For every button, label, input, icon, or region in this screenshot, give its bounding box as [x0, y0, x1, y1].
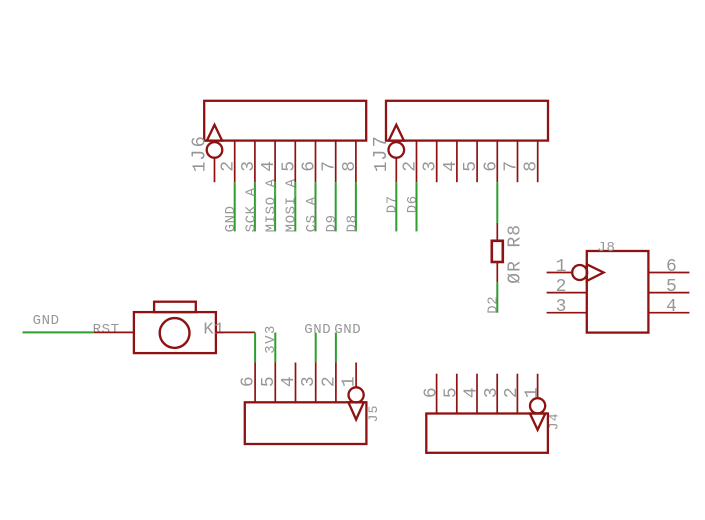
net MISO_A wire [274, 182, 276, 231]
svg-text:6: 6 [666, 257, 677, 277]
J7 pin 1 wire [395, 157, 397, 182]
J4 pin 5 wire [456, 374, 458, 414]
svg-text:2: 2 [502, 387, 522, 398]
svg-text:5: 5 [461, 161, 481, 172]
svg-text:D2: D2 [485, 296, 501, 314]
svg-text:5: 5 [279, 161, 299, 172]
svg-text:J4: J4 [547, 412, 562, 430]
connector J5 body [245, 402, 367, 444]
J6 pin 1 marker triangle [207, 125, 222, 141]
svg-text:2: 2 [556, 277, 567, 297]
J8 pin 4 wire [648, 312, 689, 314]
svg-text:1: 1 [372, 161, 392, 172]
R8 bottom pin wire [496, 262, 498, 282]
J7 pin 1 marker circle [389, 142, 405, 158]
net D8 wire [355, 182, 357, 231]
svg-text:ØR: ØR [505, 260, 525, 284]
J5 pin 1 wire [355, 363, 357, 387]
J7 pin 2 wire [416, 141, 418, 183]
connector J6 body [204, 101, 366, 141]
svg-text:7: 7 [320, 161, 340, 172]
J5 pin 1 marker circle [349, 387, 364, 402]
J6 pin 3 wire [254, 141, 256, 183]
J8 pin 2 wire [547, 292, 587, 294]
J4 pin 6 wire [436, 374, 438, 414]
net GND wire (left) [23, 331, 94, 333]
net D7 wire [395, 182, 397, 231]
J8 pin 1 marker triangle [587, 264, 604, 281]
svg-text:D8: D8 [344, 214, 360, 232]
svg-text:D7: D7 [385, 195, 401, 213]
K1 left pin wire [94, 331, 134, 333]
net 3V3 wire [274, 333, 276, 363]
J7 pin 8 wire [537, 141, 539, 183]
J8 pin 1 marker circle [572, 265, 587, 280]
svg-text:3: 3 [482, 387, 502, 398]
R8 top pin wire [496, 223, 498, 241]
J6 pin 5 wire [294, 141, 296, 183]
svg-text:SCK_A: SCK_A [243, 187, 259, 232]
svg-text:6: 6 [421, 387, 441, 398]
pushbutton K1 body [134, 312, 216, 353]
net MOSI_A wire [294, 182, 296, 231]
J4 pin 1 wire [537, 374, 539, 398]
net GND wire to J5 pin 3 [315, 333, 317, 363]
svg-text:3: 3 [556, 297, 567, 317]
J4 pin 4 wire [476, 374, 478, 414]
connector J4 body [426, 414, 548, 453]
svg-text:5: 5 [666, 277, 677, 297]
J6 pin 1 wire [214, 157, 216, 182]
J8 pin 6 wire [648, 272, 689, 274]
J6 pin 7 wire [335, 141, 337, 183]
svg-text:4: 4 [259, 161, 279, 172]
svg-text:3: 3 [421, 161, 441, 172]
svg-text:8: 8 [340, 161, 360, 172]
J7 pin 5 wire [476, 141, 478, 183]
J7 pin 4 wire [456, 141, 458, 183]
svg-text:1: 1 [190, 161, 210, 172]
net CS_A wire [315, 182, 317, 231]
net GND wire [234, 182, 236, 231]
svg-text:GND: GND [33, 313, 60, 329]
svg-text:D6: D6 [405, 195, 421, 213]
J6 pin 8 wire [355, 141, 357, 183]
svg-text:J5: J5 [366, 404, 381, 422]
J7 pin 3 wire [436, 141, 438, 183]
svg-text:4: 4 [462, 387, 482, 398]
svg-text:CS_A: CS_A [304, 196, 320, 232]
svg-text:J6: J6 [188, 134, 210, 161]
connector J8 body [587, 251, 649, 333]
svg-text:7: 7 [502, 161, 522, 172]
J8 pin 1 wire [547, 272, 573, 274]
J8 pin 3 wire [547, 312, 587, 314]
net wire J7 pin6 to R8 (green) [496, 182, 498, 223]
J7 pin 1 marker triangle [389, 125, 404, 141]
net D9 wire [335, 182, 337, 231]
svg-text:1: 1 [522, 387, 542, 398]
svg-text:3V3: 3V3 [263, 324, 279, 354]
svg-text:R8: R8 [505, 224, 525, 248]
svg-text:3: 3 [239, 161, 259, 172]
svg-text:J8: J8 [597, 240, 615, 256]
J4 pin 1 marker triangle [530, 414, 545, 430]
K1 button circle [160, 318, 190, 348]
J5 pin 5 wire [274, 363, 276, 403]
connector J7 body [386, 101, 548, 141]
svg-text:GND: GND [304, 322, 331, 338]
svg-text:RST: RST [93, 322, 120, 338]
J6 pin 2 wire [234, 141, 236, 183]
svg-text:8: 8 [522, 161, 542, 172]
J5 pin 2 wire [335, 363, 337, 403]
svg-text:5: 5 [442, 387, 462, 398]
J7 pin 7 wire [517, 141, 519, 183]
svg-text:J7: J7 [370, 134, 392, 161]
J4 pin 1 marker circle [530, 398, 545, 413]
net GND wire to J5 pin 2 [335, 333, 337, 363]
svg-text:K1: K1 [203, 321, 224, 340]
K1 actuator [154, 302, 196, 312]
J5 pin 6 wire [254, 363, 256, 403]
J6 pin 6 wire [315, 141, 317, 183]
svg-text:D9: D9 [324, 214, 340, 232]
net D6 wire [416, 182, 418, 231]
resistor R8 [492, 241, 503, 262]
svg-text:4: 4 [441, 161, 461, 172]
svg-text:MISO_A: MISO_A [264, 178, 280, 232]
svg-text:6: 6 [300, 161, 320, 172]
J5 pin 1 marker triangle [348, 402, 363, 419]
net wire K1 to J5 pin 6 (vertical) [254, 332, 256, 362]
J5 pin 3 wire [315, 363, 317, 403]
svg-text:6: 6 [481, 161, 501, 172]
net SCK_A wire [254, 182, 256, 231]
net D2 wire [496, 282, 498, 312]
J4 pin 3 wire [496, 374, 498, 414]
svg-text:2: 2 [219, 161, 239, 172]
J6 pin 1 marker circle [207, 142, 223, 158]
svg-text:GND: GND [223, 205, 239, 232]
J7 pin 6 wire [496, 141, 498, 183]
svg-text:MOSI_A: MOSI_A [284, 178, 300, 232]
svg-text:4: 4 [666, 297, 677, 317]
K1 right pin wire [216, 331, 255, 333]
svg-text:1: 1 [556, 257, 567, 277]
J4 pin 2 wire [516, 374, 518, 414]
J6 pin 4 wire [274, 141, 276, 183]
svg-text:2: 2 [401, 161, 421, 172]
J8 pin 5 wire [648, 292, 689, 294]
svg-text:GND: GND [334, 322, 361, 338]
J5 pin 4 wire [295, 363, 297, 403]
